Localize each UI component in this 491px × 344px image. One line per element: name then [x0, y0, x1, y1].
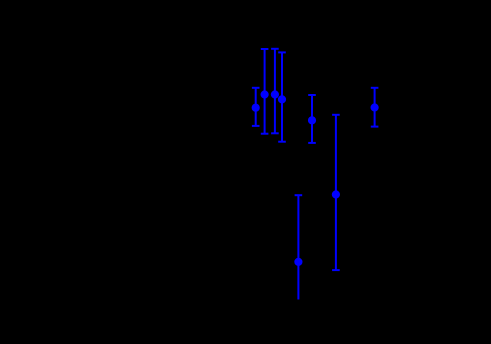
error bar point 1	[252, 88, 260, 126]
error bar point 3	[271, 49, 279, 134]
error bar point 8	[371, 88, 379, 127]
error bar point 5	[308, 95, 316, 143]
error bar point 4	[278, 52, 286, 141]
error bar point 7 (lower whisker clipped, no bottom cap)	[295, 195, 303, 299]
error bar point 6	[332, 115, 340, 270]
error bar point 2	[261, 49, 269, 134]
